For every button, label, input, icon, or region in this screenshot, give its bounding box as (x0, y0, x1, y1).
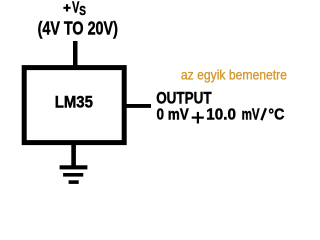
output wire (124, 104, 151, 108)
wire from +VS to LM35 top (73, 41, 78, 67)
svg-text:OUTPUT: OUTPUT (156, 88, 212, 107)
svg-text:az egyik bemenetre: az egyik bemenetre (181, 66, 287, 82)
ground symbol (60, 165, 88, 184)
svg-text:LM35: LM35 (55, 93, 93, 112)
LM35 body U1 (24, 68, 124, 143)
supply plus sign (63, 4, 70, 11)
svg-text:0 mV: 0 mV (157, 107, 190, 124)
svg-text:(4V TO 20V): (4V TO 20V) (38, 18, 118, 38)
supply label VS (72, 0, 86, 18)
svg-text:mV: mV (242, 107, 260, 124)
slash (261, 108, 266, 120)
svg-text:S: S (79, 3, 86, 18)
plus sign in output value (192, 112, 204, 124)
svg-text:10.0: 10.0 (206, 107, 236, 124)
ground wire (71, 143, 76, 168)
svg-text:°C: °C (268, 107, 284, 124)
